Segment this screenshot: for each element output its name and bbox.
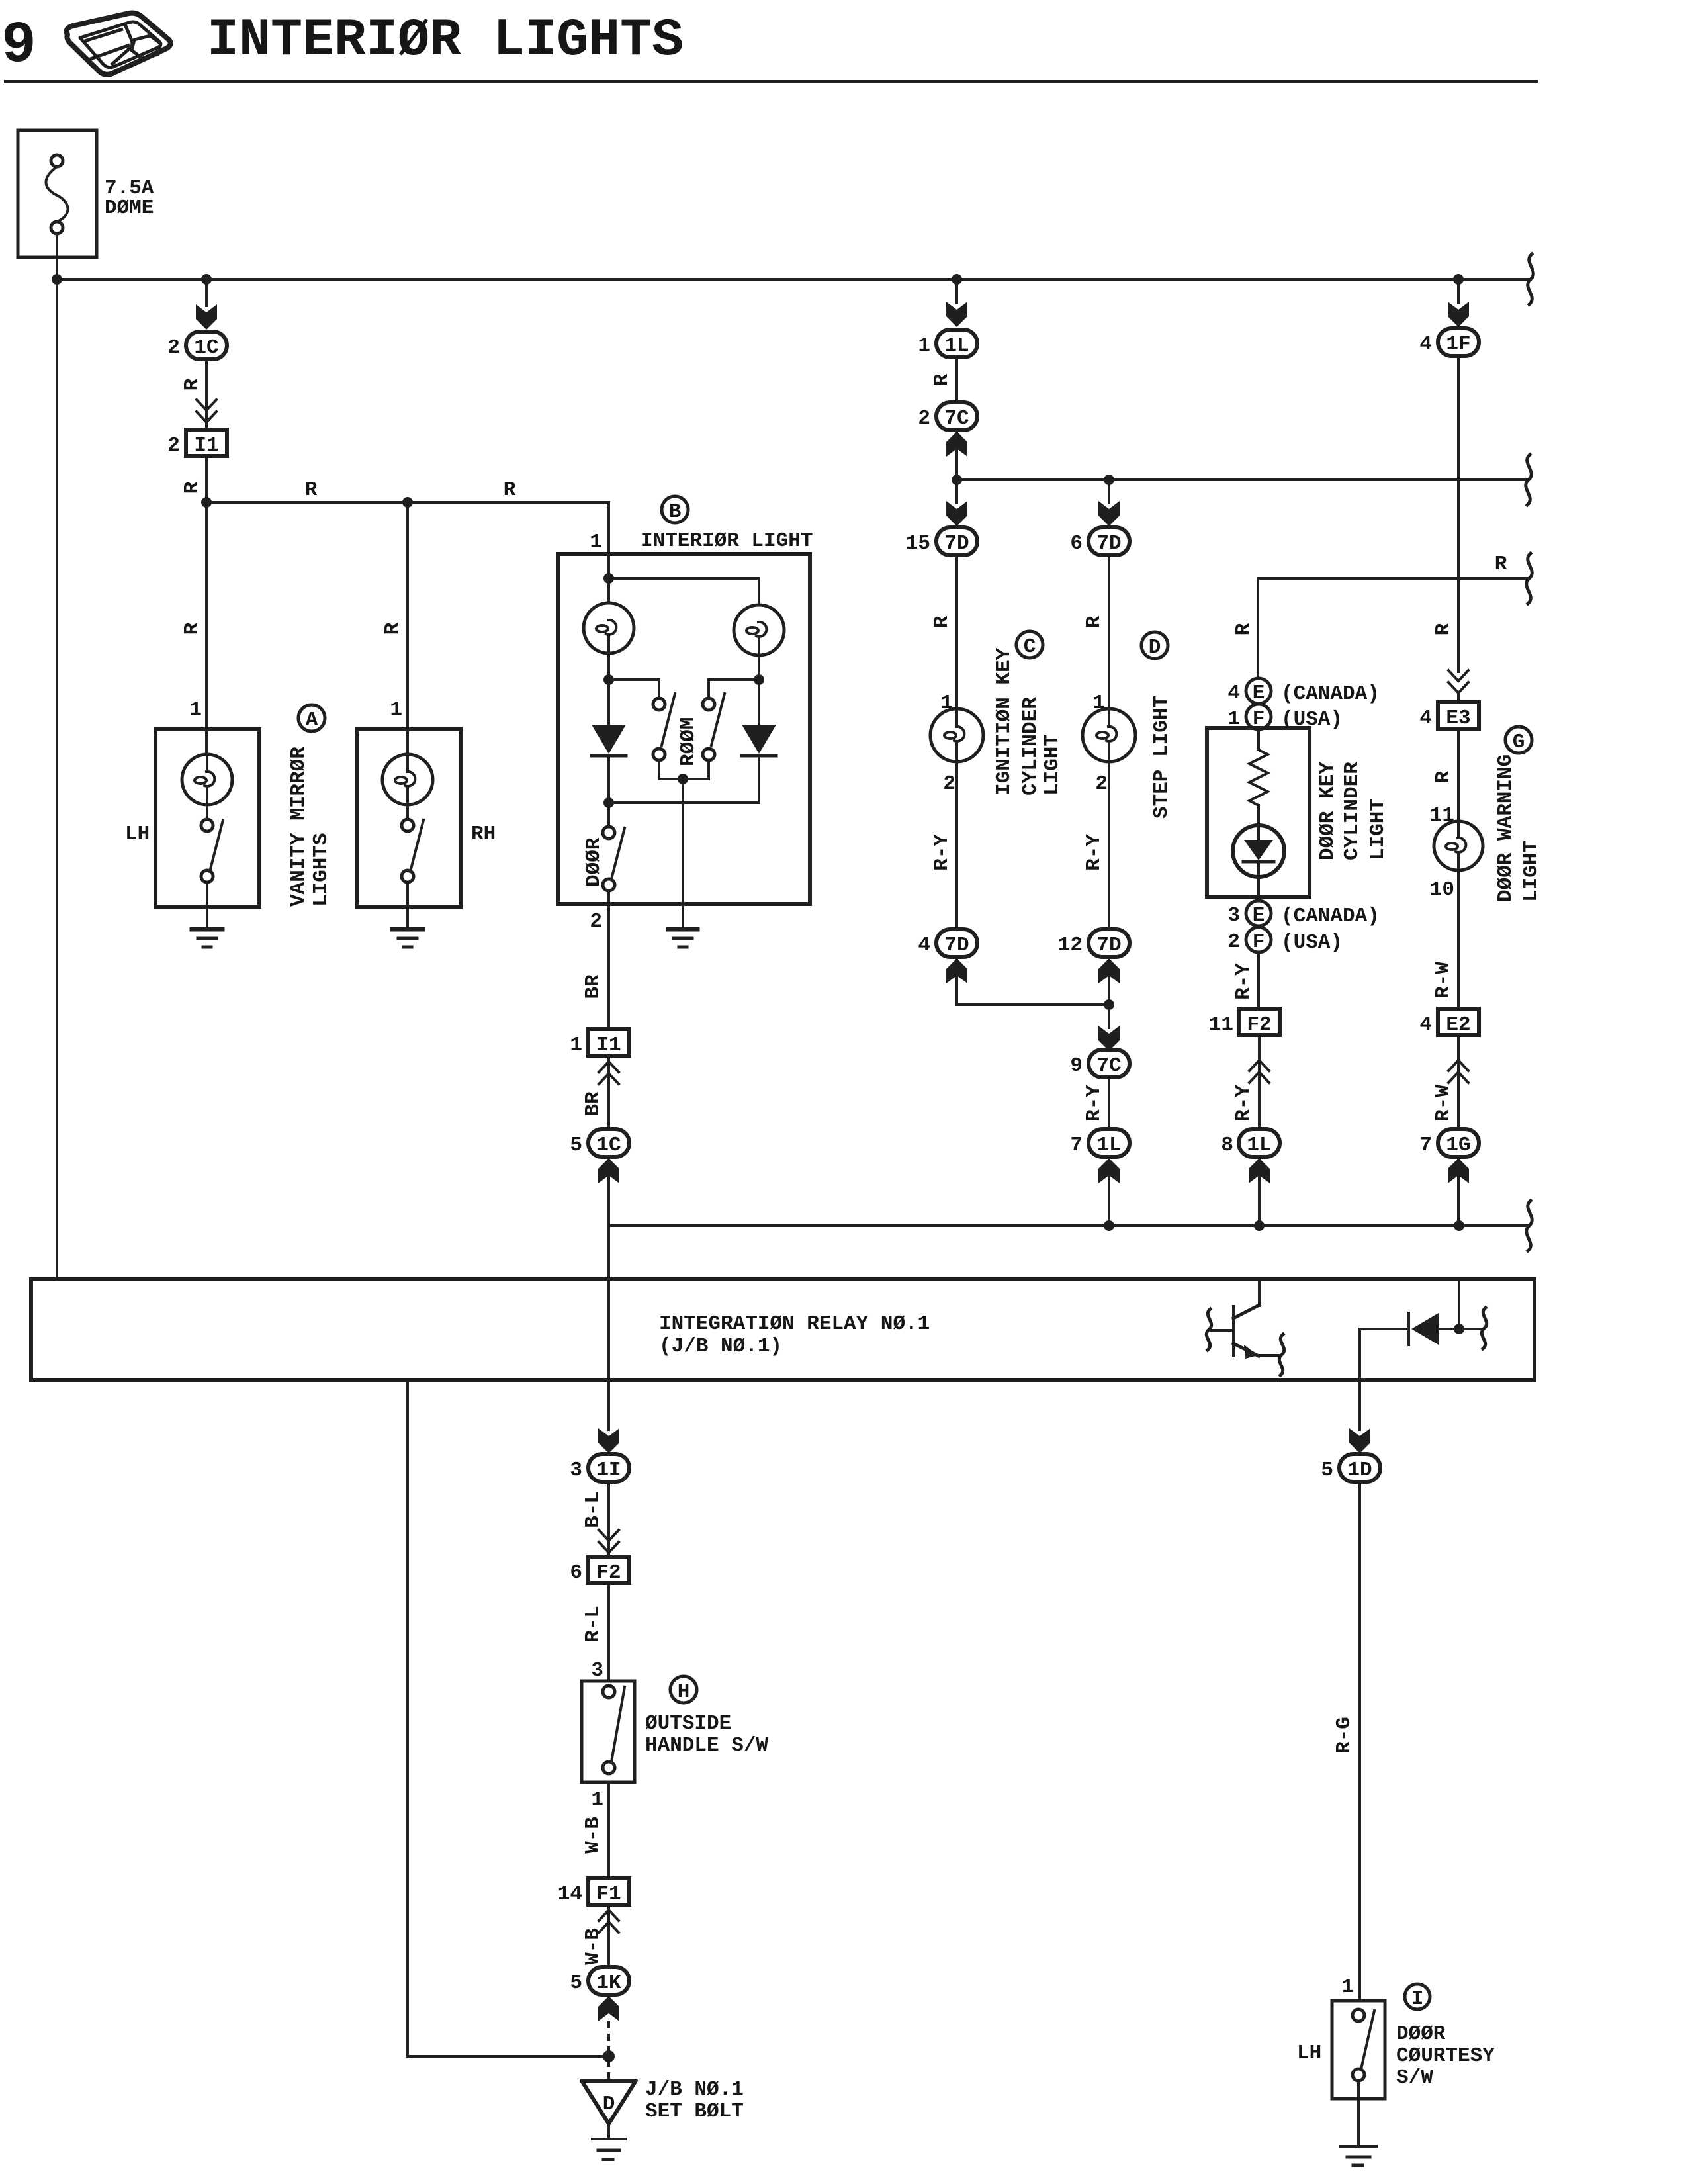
connector 2(F) USA [1227, 927, 1343, 954]
diode (in relay) [1360, 1279, 1487, 1380]
label circle I [1405, 1984, 1430, 2011]
svg-text:E: E [1253, 682, 1265, 705]
node mid bus step branch [1104, 475, 1114, 485]
svg-text:G: G [1513, 731, 1525, 754]
svg-text:4: 4 [1419, 333, 1432, 356]
wire dashes to set bolt [607, 2060, 610, 2079]
svg-text:R-Y: R-Y [1083, 834, 1106, 871]
svg-text:1F: 1F [1446, 333, 1470, 356]
switch outside handle [582, 1681, 635, 1782]
wire relay to 5(1D) [1358, 1380, 1361, 1430]
node ROOM common [678, 774, 688, 784]
node step junction [1104, 999, 1114, 1010]
svg-text:VANITY MIRRØR: VANITY MIRRØR [287, 747, 310, 907]
wire left rail [56, 279, 58, 1279]
node bus left [52, 274, 62, 285]
svg-text:CYLINDER: CYLINDER [1019, 697, 1042, 796]
interior light box [558, 554, 810, 904]
connector 5(1D) [1321, 1454, 1380, 1482]
svg-text:2: 2 [1227, 931, 1240, 954]
wire lower bus [609, 1224, 1529, 1227]
svg-text:3: 3 [1227, 904, 1240, 927]
svg-text:2: 2 [943, 772, 955, 796]
svg-text:1K: 1K [596, 1972, 621, 1995]
svg-text:DØØR: DØØR [1396, 2023, 1446, 2046]
node below right bulb [754, 674, 764, 685]
node bus door warning branch [1453, 274, 1464, 285]
svg-text:LIGHT: LIGHT [1041, 734, 1064, 796]
node lower bus step branch [1104, 1220, 1114, 1231]
svg-text:(J/B NØ.1): (J/B NØ.1) [659, 1335, 782, 1358]
wire 1C to I1, label R [205, 359, 208, 401]
connector 14[F1] [558, 1878, 629, 1906]
svg-text:DØØR KEY: DØØR KEY [1316, 762, 1339, 860]
svg-text:R-Y: R-Y [930, 834, 954, 871]
svg-text:IGNITIØN KEY: IGNITIØN KEY [993, 647, 1016, 796]
label circle D [1141, 632, 1168, 659]
svg-text:R-Y: R-Y [1232, 963, 1255, 1000]
svg-text:INTERIØR LIGHTS: INTERIØR LIGHTS [207, 11, 684, 71]
svg-text:7: 7 [1070, 1134, 1083, 1157]
arrow up below 5(1C) [598, 1158, 619, 1183]
svg-text:LIGHT: LIGHT [1366, 799, 1390, 860]
svg-text:STEP LIGHT: STEP LIGHT [1150, 696, 1173, 819]
wire down to 4(E), label R [1257, 578, 1259, 678]
resistor door key [1257, 729, 1260, 750]
fuse 7.5A DOME [18, 130, 154, 257]
connector 12(7D) [1058, 929, 1130, 957]
svg-text:LIGHT: LIGHT [1520, 841, 1543, 902]
bulb door warning light [1434, 821, 1483, 870]
svg-text:DØME: DØME [105, 197, 154, 220]
svg-text:ØUTSIDE: ØUTSIDE [645, 1712, 731, 1735]
svg-text:R-Y: R-Y [1232, 1085, 1255, 1122]
chevrons up below E2 [1457, 1035, 1460, 1129]
arrow up below 2(7C) [946, 432, 967, 457]
svg-text:LH: LH [125, 823, 150, 846]
wire mid bus [957, 478, 1529, 481]
svg-text:B-L: B-L [582, 1491, 605, 1528]
svg-text:2: 2 [590, 910, 602, 933]
svg-text:4: 4 [918, 934, 930, 957]
wire 7D to bulb, label R [1108, 555, 1110, 709]
svg-text:F1: F1 [596, 1883, 621, 1906]
bulb interior left [584, 603, 634, 680]
svg-text:1C: 1C [596, 1134, 621, 1157]
wire 7C to 1L, label R-Y [1108, 1077, 1110, 1129]
wire 4(7D) to step column [957, 957, 1109, 1005]
svg-text:R: R [1432, 623, 1455, 635]
ground RH vanity [392, 907, 423, 947]
wire bus to 1L [955, 279, 958, 303]
svg-text:7D: 7D [1096, 934, 1121, 957]
diode interior right [742, 680, 776, 803]
svg-text:4: 4 [1227, 682, 1240, 705]
svg-text:S/W: S/W [1396, 2066, 1433, 2089]
svg-text:R: R [181, 622, 204, 635]
wire to ROOM switch right pole [709, 680, 759, 696]
chevrons up below I1 [607, 1056, 610, 1128]
switch door courtesy LH [1297, 2001, 1385, 2099]
arrow up below 7(1G) [1448, 1158, 1469, 1183]
svg-text:R: R [181, 481, 204, 494]
svg-text:6: 6 [570, 1561, 582, 1584]
svg-text:H: H [678, 1680, 690, 1704]
switch ROOM (two poles) [653, 694, 725, 766]
svg-text:R-L: R-L [582, 1606, 605, 1643]
label circle H [670, 1676, 697, 1704]
svg-text:2: 2 [167, 434, 180, 457]
ground J/B No.1 set bolt [582, 2081, 636, 2160]
svg-text:W-B: W-B [582, 1928, 605, 1965]
connector 11[F2] [1209, 1009, 1280, 1036]
svg-text:7D: 7D [944, 934, 969, 957]
svg-text:1: 1 [189, 698, 202, 721]
chevrons up below F2 [1258, 1035, 1261, 1129]
wire ROOM common to ground [682, 779, 684, 929]
svg-text:SET BØLT: SET BØLT [645, 2100, 744, 2123]
svg-text:12: 12 [1058, 934, 1083, 957]
arrow into 15(7D) [946, 501, 967, 526]
arrow up below 5(1K) [598, 1996, 619, 2021]
wire 1L to 7C, label R [955, 357, 958, 402]
connector 2(1C) [167, 332, 227, 359]
wires ROOM poles to common node [659, 760, 709, 779]
wire inside top [607, 554, 610, 603]
svg-text:R: R [381, 622, 404, 635]
svg-text:RØØM: RØØM [677, 717, 700, 766]
connector 8(1L) [1221, 1129, 1280, 1157]
ground LH vanity [192, 907, 222, 947]
connector 4[E2] [1419, 1009, 1479, 1036]
door key cylinder light box [1207, 728, 1310, 897]
svg-text:1: 1 [918, 334, 930, 357]
wire down to RH vanity light, label R [406, 502, 409, 729]
arrow into 1C [196, 304, 217, 330]
label circle A [298, 705, 325, 732]
svg-text:4: 4 [1419, 707, 1432, 730]
svg-text:LH: LH [1297, 2042, 1321, 2065]
svg-text:INTEGRATIØN RELAY NØ.1: INTEGRATIØN RELAY NØ.1 [659, 1312, 930, 1336]
wire relay left drop [408, 1380, 603, 2056]
svg-text:2: 2 [918, 407, 930, 430]
bulb RH vanity [382, 754, 433, 805]
wire bus to 1F [1457, 279, 1460, 303]
node vanity bus left [201, 497, 212, 508]
node mid bus left [952, 475, 962, 485]
arrow into 5(1D) [1349, 1428, 1370, 1453]
chevrons up below F1 [607, 1905, 610, 1967]
svg-text:RH: RH [471, 823, 496, 846]
wire 1G to lower bus and diode [1457, 1157, 1460, 1226]
wire interior light to I1, label BR [607, 904, 610, 1029]
svg-text:(CANADA): (CANADA) [1281, 905, 1380, 928]
chevrons into I1 [197, 400, 216, 422]
arrow up below 7(1L) [1098, 1158, 1120, 1183]
svg-text:E: E [1253, 904, 1265, 927]
node bus ignition branch [952, 274, 962, 285]
node lower bus transistor branch [1254, 1220, 1265, 1231]
connector 1[I1] [570, 1029, 629, 1057]
node interior top [603, 573, 614, 584]
svg-text:5: 5 [1321, 1459, 1333, 1482]
connector 1(1L) [918, 330, 977, 357]
chevrons into E3 [1448, 670, 1468, 693]
wire break lower bus [1527, 1201, 1533, 1251]
switch RH vanity [406, 805, 409, 819]
svg-text:R: R [305, 478, 318, 502]
arrow into 1F [1448, 302, 1469, 327]
wire 1C column into relay [607, 1226, 610, 1380]
svg-text:5: 5 [570, 1972, 582, 1995]
svg-text:F2: F2 [596, 1561, 621, 1584]
wire 1F down crossing buses, label R [1457, 356, 1460, 672]
wire diode bottoms joined [609, 801, 759, 804]
relay box [31, 1279, 1534, 1380]
wire break main bus [1528, 254, 1534, 304]
wire F2 to switch, label R-L [607, 1583, 610, 1681]
wire fuse to bus [56, 234, 58, 279]
svg-text:R: R [1232, 623, 1255, 635]
svg-text:(USA): (USA) [1281, 931, 1343, 954]
svg-text:3: 3 [591, 1659, 603, 1682]
vanity mirror light RH [357, 729, 496, 907]
svg-text:1: 1 [590, 531, 602, 554]
title underline [5, 80, 1536, 83]
bulb interior right [734, 605, 784, 680]
connector 4(1F) [1419, 328, 1479, 356]
wire relay to 3(1I) [607, 1380, 610, 1430]
wire 7C to mid bus [955, 430, 958, 480]
svg-text:7D: 7D [944, 532, 969, 555]
svg-text:W-B: W-B [582, 1817, 605, 1854]
bulb step light [1083, 709, 1135, 762]
svg-text:BR: BR [582, 1091, 605, 1116]
svg-text:R: R [181, 378, 204, 390]
svg-text:7C: 7C [1096, 1054, 1121, 1077]
connector 6(7D) [1070, 527, 1130, 555]
wire 1D to switch, label R-G [1358, 1482, 1361, 2001]
svg-text:7C: 7C [944, 407, 969, 430]
svg-text:C: C [1024, 635, 1036, 659]
wire to F2, label R-Y [1257, 952, 1260, 1009]
svg-text:1: 1 [390, 698, 402, 721]
connector 6[F2] [570, 1557, 629, 1584]
svg-text:J/B NØ.1: J/B NØ.1 [645, 2078, 744, 2101]
dome light icon [67, 13, 171, 75]
connector 4[E3] [1419, 702, 1479, 730]
wire bulb to 12(7D), label R-Y [1108, 762, 1110, 929]
svg-text:10: 10 [1430, 878, 1454, 901]
svg-text:HANDLE S/W: HANDLE S/W [645, 1734, 768, 1757]
wire I1 to vanity bus [205, 456, 208, 502]
wire E3 to bulb, label R [1457, 729, 1460, 821]
svg-text:4: 4 [1419, 1013, 1432, 1036]
svg-text:R: R [930, 615, 954, 628]
svg-text:R: R [1495, 553, 1507, 576]
diode interior left [592, 680, 626, 803]
arrow into 1L [946, 302, 967, 327]
arrow into 9(7C) [1098, 1026, 1120, 1051]
svg-text:CYLINDER: CYLINDER [1341, 762, 1364, 860]
svg-text:1D: 1D [1347, 1459, 1372, 1482]
svg-text:1: 1 [1341, 1976, 1354, 1999]
node below left diode [603, 797, 614, 808]
svg-text:CØURTESY: CØURTESY [1396, 2044, 1495, 2068]
connector 3(1I) [570, 1454, 629, 1482]
label circle B [662, 496, 688, 523]
ground door courtesy [1341, 2081, 1376, 2165]
wire bus to connector 1C [205, 279, 208, 306]
svg-text:R-W: R-W [1432, 1085, 1455, 1122]
connector 7(1L) [1070, 1129, 1130, 1157]
connector 5(1C) [570, 1129, 629, 1157]
svg-text:7: 7 [1419, 1134, 1432, 1157]
bulb LH vanity [182, 754, 232, 805]
svg-text:(CANADA): (CANADA) [1281, 682, 1380, 705]
svg-text:1C: 1C [194, 336, 218, 359]
wire 1I to F2, label B-L [607, 1482, 610, 1557]
wire 12(7D) to node [1108, 957, 1110, 1028]
node lower bus diode branch [1454, 1220, 1464, 1231]
wire 1L to lower bus and transistor [1258, 1157, 1261, 1226]
wire to ROOM switch left pole [609, 680, 659, 696]
connector 9(7C) [1070, 1050, 1130, 1077]
svg-text:1I: 1I [596, 1459, 621, 1482]
svg-text:7D: 7D [1096, 532, 1121, 555]
connector 4(E) CANADA [1227, 678, 1379, 705]
svg-text:8: 8 [1221, 1134, 1233, 1157]
svg-text:1L: 1L [944, 334, 969, 357]
connector 3(E) CANADA [1227, 901, 1379, 928]
svg-text:6: 6 [1070, 532, 1083, 555]
wire switch to F1, label W-B [607, 1782, 610, 1878]
switch LH vanity [206, 805, 208, 819]
svg-text:INTERIØR LIGHT: INTERIØR LIGHT [641, 529, 813, 553]
label circle G [1505, 727, 1532, 754]
svg-text:D: D [1149, 636, 1161, 659]
arrow into 3(1I) [598, 1428, 619, 1453]
connector 1(F) USA [1227, 704, 1343, 731]
connector 4(7D) [918, 929, 977, 957]
svg-text:R-Y: R-Y [1083, 1085, 1106, 1122]
wire 1L to lower bus [1108, 1157, 1110, 1226]
wire 7D to bulb, label R [955, 555, 958, 709]
connector 7(1G) [1419, 1129, 1479, 1157]
arrow into 6(7D) [1098, 501, 1120, 526]
transistor (in relay) [1206, 1279, 1284, 1375]
svg-text:D: D [603, 2093, 615, 2116]
svg-text:LIGHTS: LIGHTS [310, 833, 333, 907]
wire mid bus to 15(7D) [955, 480, 958, 503]
wire down to LH vanity light, label R [205, 502, 208, 729]
arrow up below 4(7D) [946, 958, 967, 983]
bulb ignition key cylinder light [930, 709, 983, 762]
node bus vanity branch [201, 274, 212, 285]
node set bolt junction [603, 2050, 615, 2062]
wire dashes to junction [607, 2021, 610, 2054]
wire bulb to 4(7D), label R-Y [955, 762, 958, 929]
wire R feed line [1258, 577, 1529, 580]
wire mid bus to 6(7D) [1108, 480, 1110, 503]
svg-text:9: 9 [1, 13, 36, 79]
svg-text:I1: I1 [596, 1034, 621, 1057]
svg-text:15: 15 [906, 532, 930, 555]
node vanity bus RH [402, 497, 413, 508]
svg-text:A: A [306, 709, 318, 732]
connector 2(7C) [918, 402, 977, 430]
svg-text:E2: E2 [1446, 1013, 1470, 1036]
svg-text:DØØR WARNING: DØØR WARNING [1494, 754, 1517, 902]
connector 2[I1] [167, 430, 227, 457]
wire 1C down to lower bus [607, 1157, 610, 1226]
svg-text:14: 14 [558, 1883, 582, 1906]
wire break mid bus [1526, 455, 1532, 505]
ground interior light [668, 929, 697, 947]
svg-text:2: 2 [1095, 772, 1108, 796]
svg-text:DØØR: DØØR [582, 837, 605, 887]
svg-text:1: 1 [591, 1788, 603, 1811]
svg-text:R-G: R-G [1333, 1717, 1356, 1754]
chevrons into F2 [599, 1530, 619, 1553]
svg-text:R-W: R-W [1432, 962, 1455, 999]
label circle C [1016, 631, 1043, 659]
svg-text:1: 1 [570, 1034, 582, 1057]
switch DOOR [582, 803, 625, 904]
arrow up below 8(1L) [1249, 1158, 1270, 1183]
vanity mirror light LH [125, 729, 259, 907]
svg-text:R: R [504, 478, 516, 502]
LED door key [1233, 805, 1284, 901]
arrow up below 12(7D) [1098, 958, 1120, 983]
svg-text:R: R [1083, 615, 1106, 628]
svg-text:11: 11 [1209, 1013, 1233, 1036]
wire top jumper to right bulb [609, 578, 759, 605]
node below left bulb [603, 674, 614, 685]
svg-text:F: F [1253, 931, 1265, 954]
svg-text:3: 3 [570, 1459, 582, 1482]
svg-text:F2: F2 [1247, 1013, 1271, 1036]
svg-text:E3: E3 [1446, 707, 1470, 730]
svg-text:I: I [1411, 1987, 1424, 2011]
svg-text:1G: 1G [1446, 1134, 1470, 1157]
svg-text:R: R [930, 373, 954, 386]
svg-text:5: 5 [570, 1134, 582, 1157]
svg-text:9: 9 [1070, 1054, 1083, 1077]
connector 5(1K) [570, 1967, 629, 1995]
svg-text:B: B [669, 500, 682, 523]
svg-text:1L: 1L [1247, 1134, 1271, 1157]
svg-text:BR: BR [582, 974, 605, 999]
svg-text:2: 2 [167, 336, 180, 359]
wire vanity bus [206, 501, 609, 504]
wire main bus B+ [57, 278, 1530, 281]
connector 15(7D) [906, 527, 977, 555]
svg-text:R: R [1432, 770, 1455, 783]
wire bulb to E2, label R-W [1457, 870, 1460, 1009]
svg-text:1L: 1L [1096, 1134, 1121, 1157]
wire break R feed [1527, 553, 1533, 604]
wire vanity bus corner down into interior light [607, 502, 610, 554]
svg-text:I1: I1 [194, 434, 218, 457]
